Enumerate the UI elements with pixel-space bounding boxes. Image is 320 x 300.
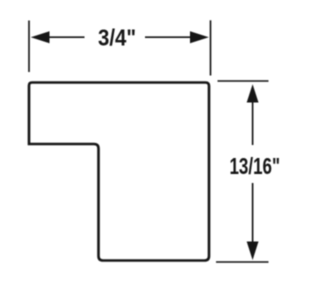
svg-text:3/4": 3/4" [98, 24, 136, 50]
svg-text:13/16": 13/16" [230, 153, 281, 179]
